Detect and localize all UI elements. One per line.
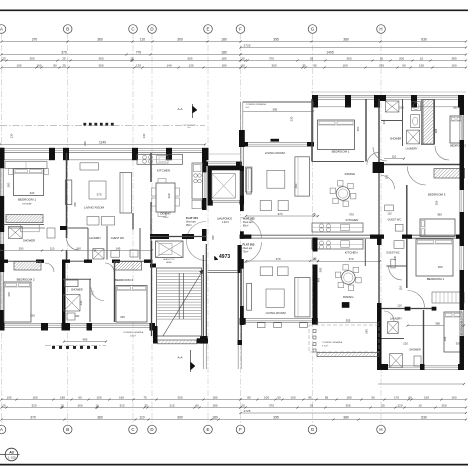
svg-text:A3: A3: [9, 450, 14, 454]
bottom dimension row 1 right: [241, 399, 467, 401]
living flat203 tv: [247, 283, 252, 310]
svg-text:BEDROOM 1: BEDROOM 1: [18, 198, 36, 202]
svg-text:2.92m²: 2.92m²: [222, 221, 229, 224]
svg-text:KITCHEN: KITCHEN: [345, 251, 358, 255]
svg-text:370: 370: [349, 213, 354, 217]
wall y164 right wing: [373, 162, 384, 173]
staircase: [157, 268, 202, 336]
top dimension row 4 right: [241, 67, 467, 69]
right wing top wall inner face: [318, 106, 345, 108]
entry door arc flat203: [241, 242, 262, 263]
wall x379 south part: [377, 237, 382, 245]
roof projection dashed line: [0, 125, 205, 127]
wall living-dining x151: [150, 153, 152, 182]
door arc shower2: [91, 288, 104, 301]
svg-text:100: 100: [96, 395, 101, 399]
veranda west railing: [239, 102, 241, 130]
svg-text:370: 370: [32, 37, 38, 41]
bottom inner dimension right: [378, 383, 464, 385]
svg-text:360: 360: [97, 37, 103, 41]
svg-text:60: 60: [241, 63, 245, 67]
wall x312-317 flat203 kitchen side: [313, 238, 318, 252]
svg-text:370: 370: [269, 403, 274, 407]
living201 big sofa: [120, 173, 132, 214]
dining flat203: [342, 271, 356, 285]
interior dim row left wing: [0, 250, 152, 252]
guest wc 201: [111, 250, 120, 257]
svg-text:135: 135: [136, 63, 141, 67]
veranda-living wall: [242, 142, 248, 147]
grid bubble B bottom: [63, 425, 72, 434]
living flat202 table: [267, 170, 285, 188]
living201 armchairs: [87, 217, 99, 226]
svg-text:B: B: [66, 427, 69, 432]
bedroom1 flat202 bed: [318, 120, 355, 150]
grid lines dashed: [1, 34, 3, 426]
bedroom 2 bed: [4, 282, 31, 322]
veranda planter east of core: [246, 167, 253, 192]
svg-text:380: 380: [343, 415, 349, 419]
wall bed1-shower flat202 x366: [365, 99, 367, 162]
svg-text:COVERED VERANDA: COVERED VERANDA: [322, 341, 343, 344]
bottom dimension 2725: [241, 412, 467, 414]
bedroom1 dresser: [5, 162, 47, 169]
svg-text:345: 345: [443, 336, 447, 341]
svg-text:LIVING ROOM: LIVING ROOM: [84, 205, 105, 209]
svg-text:105: 105: [16, 63, 21, 67]
svg-text:2725: 2725: [244, 409, 251, 413]
svg-text:C: C: [131, 427, 134, 432]
bedroom2 flat203 bed: [444, 312, 462, 352]
svg-text:200: 200: [19, 246, 24, 250]
dim row flat203 living: [246, 260, 318, 262]
svg-text:4973: 4973: [219, 254, 230, 260]
svg-text:3bed apt: 3bed apt: [186, 221, 196, 224]
svg-text:160: 160: [74, 314, 79, 318]
svg-text:230: 230: [379, 63, 384, 67]
svg-text:H: H: [379, 427, 382, 432]
svg-text:370: 370: [30, 415, 36, 419]
svg-text:25: 25: [312, 257, 316, 261]
svg-text:DINING: DINING: [160, 212, 171, 216]
right wing top wall windows: [318, 95, 345, 97]
door arc shower201: [67, 238, 79, 250]
svg-text:B: B: [66, 27, 69, 32]
svg-text:60: 60: [78, 395, 82, 399]
dining flat202: [336, 187, 350, 201]
grid bubble D bottom: [148, 425, 157, 434]
bedroom1 203 wardrobe: [432, 292, 464, 303]
svg-text:630: 630: [421, 37, 427, 41]
svg-text:170: 170: [394, 395, 399, 399]
grid bubble A top: [0, 25, 6, 34]
svg-text:230: 230: [290, 116, 294, 121]
dim 580 flat203: [408, 325, 465, 327]
bottom wall right rooms: [382, 364, 389, 370]
entry walkway west wall: [202, 255, 204, 336]
svg-text:220: 220: [397, 403, 402, 407]
svg-text:KITCHEN: KITCHEN: [346, 218, 359, 222]
svg-text:110: 110: [397, 304, 402, 308]
svg-text:370: 370: [277, 212, 282, 216]
svg-text:375: 375: [96, 193, 101, 197]
svg-text:370: 370: [269, 56, 274, 60]
covered veranda flat203: [309, 325, 379, 352]
dim row flat202 living: [246, 215, 318, 217]
svg-text:395: 395: [273, 415, 279, 419]
laundry flat202: [407, 130, 420, 144]
stair south band: [153, 326, 158, 344]
svg-text:355: 355: [345, 403, 350, 407]
svg-text:10: 10: [420, 56, 424, 60]
veranda hatch strip: [317, 353, 379, 357]
living flat203 table: [266, 289, 284, 307]
grid bubble E bottom: [204, 425, 213, 434]
svg-text:770: 770: [136, 50, 142, 54]
bottom dimension row 2 right: [241, 407, 467, 409]
svg-text:2bed apt: 2bed apt: [243, 247, 253, 250]
kitchen 201 top counter: [137, 154, 183, 164]
svg-text:8m²: 8m²: [246, 106, 250, 109]
grid bubble C bottom: [129, 425, 138, 434]
left wing bottom wall windows: [5, 323, 42, 325]
svg-text:GUEST WC: GUEST WC: [111, 237, 125, 240]
core south wall: [150, 234, 169, 239]
dim row dining203: [318, 260, 380, 262]
svg-text:H: H: [379, 27, 382, 32]
top dimension row 2 right: [241, 54, 467, 56]
grid bubble A bottom: [0, 425, 6, 434]
svg-text:100: 100: [264, 395, 269, 399]
svg-text:E: E: [207, 427, 210, 432]
door arc bed3: [105, 263, 114, 272]
svg-text:580: 580: [435, 321, 440, 325]
svg-text:140: 140: [166, 63, 171, 67]
wall living SE x133: [132, 213, 134, 230]
svg-text:25: 25: [310, 403, 314, 407]
living flat202 sofa: [295, 157, 310, 196]
laundry flat203: [388, 322, 399, 334]
sheet top border: [0, 9, 468, 11]
wardrobe bedroom3: [115, 262, 142, 271]
door arc bed3 202: [407, 167, 426, 186]
door arc guestwc 202: [381, 176, 395, 190]
left wing top wall piers: [0, 148, 5, 160]
living203 south wall: [240, 318, 246, 325]
door arc bed1 203: [408, 291, 425, 308]
grid bubble E top: [204, 25, 213, 34]
svg-text:25: 25: [312, 212, 316, 216]
svg-text:385: 385: [319, 267, 323, 272]
svg-text:355: 355: [346, 318, 351, 322]
svg-text:180: 180: [212, 403, 217, 407]
svg-text:180: 180: [221, 37, 227, 41]
bedroom 1 bed: [14, 169, 44, 196]
dim 355 245: [317, 322, 379, 324]
svg-text:110: 110: [387, 212, 392, 216]
flat201 east wall to core: [202, 150, 207, 172]
svg-text:245: 245: [365, 329, 369, 334]
svg-text:110: 110: [140, 37, 145, 41]
svg-text:300: 300: [177, 395, 182, 399]
svg-text:565: 565: [187, 56, 192, 60]
svg-text:350: 350: [435, 200, 439, 205]
svg-text:100: 100: [290, 395, 295, 399]
svg-text:350: 350: [73, 202, 77, 207]
svg-text:180: 180: [212, 395, 217, 399]
svg-text:LIVING ROOM: LIVING ROOM: [266, 311, 287, 315]
wall shower2 north y279: [63, 278, 91, 280]
veranda dashed projection bottom left: [45, 345, 106, 347]
svg-text:240: 240: [79, 300, 83, 305]
top dimension row 2 left: [2, 54, 241, 56]
svg-text:KITCHEN: KITCHEN: [157, 169, 170, 173]
bedroom 3 bed: [116, 286, 147, 323]
svg-text:180: 180: [346, 395, 351, 399]
svg-text:300: 300: [271, 63, 276, 67]
svg-text:495: 495: [83, 337, 88, 341]
wall x407 flat202 east zone: [406, 185, 408, 237]
wall bed1 south y161.5: [312, 161, 364, 163]
living flat203 armchairs: [260, 267, 273, 276]
title stamp A3 1:100: [0, 454, 20, 456]
svg-text:LAUNDRY: LAUNDRY: [406, 147, 418, 150]
svg-text:490: 490: [294, 183, 298, 188]
svg-text:35: 35: [302, 63, 306, 67]
dining 201 table: [156, 183, 175, 212]
svg-text:160: 160: [32, 395, 37, 399]
svg-text:110: 110: [139, 415, 144, 419]
wall y223 bedroom1 south: [0, 223, 3, 227]
svg-text:130: 130: [10, 133, 14, 138]
svg-text:1140: 1140: [99, 140, 106, 144]
wall y226 living south: [60, 226, 67, 230]
svg-text:360: 360: [98, 56, 103, 60]
wall x151 lower segment: [150, 202, 152, 230]
svg-text:360: 360: [346, 105, 351, 109]
svg-text:160: 160: [451, 395, 456, 399]
svg-text:G: G: [311, 427, 315, 432]
common veranda hatch below stair: [158, 340, 197, 344]
right wing east wall: [460, 95, 465, 115]
svg-text:315: 315: [120, 315, 125, 319]
flat202 covered veranda: [243, 100, 313, 102]
svg-text:BEDROOM 3: BEDROOM 3: [428, 193, 446, 197]
svg-text:380: 380: [451, 56, 456, 60]
svg-text:25: 25: [310, 56, 314, 60]
svg-text:130: 130: [142, 133, 146, 138]
svg-text:25: 25: [241, 403, 245, 407]
svg-text:110: 110: [399, 285, 403, 290]
grid bubble D top: [148, 25, 157, 34]
wall x423 flat203 bed2: [423, 310, 425, 368]
shower2 fixtures: [65, 280, 79, 287]
laundry 201: [93, 249, 104, 259]
closet column flat202: [423, 100, 434, 145]
svg-text:10: 10: [95, 403, 99, 407]
svg-text:ΑΚΑΛΥΠΤΟΣ: ΑΚΑΛΥΠΤΟΣ: [163, 258, 175, 261]
svg-text:75: 75: [143, 395, 147, 399]
left wing west wall: [0, 148, 4, 169]
living201 sofa left: [65, 180, 72, 205]
svg-text:25: 25: [241, 56, 245, 60]
pier dining-living 203: [342, 302, 350, 308]
svg-text:25: 25: [130, 56, 134, 60]
svg-text:135: 135: [188, 63, 193, 67]
svg-text:FLAT 201: FLAT 201: [186, 216, 198, 220]
entry door arcs flat201: [187, 222, 207, 261]
svg-text:ΔΙΑΔΡΟΜΟΣ: ΔΙΑΔΡΟΜΟΣ: [217, 218, 232, 221]
top dimension row 1: [2, 41, 467, 43]
right wing top wall pier H wide: [374, 95, 386, 101]
svg-text:85: 85: [325, 395, 329, 399]
svg-text:F: F: [239, 27, 242, 32]
roofline right wing: [311, 91, 466, 93]
svg-text:BEDROOM 1: BEDROOM 1: [332, 150, 350, 154]
svg-text:380: 380: [343, 37, 349, 41]
shower201 en-suite: [9, 227, 23, 239]
svg-text:3.6m²: 3.6m²: [163, 216, 169, 219]
svg-text:300: 300: [29, 56, 34, 60]
stair hall wall: [150, 264, 156, 268]
shower flat202: [385, 101, 399, 112]
svg-text:8,75m²: 8,75m²: [322, 345, 329, 348]
svg-text:25: 25: [62, 56, 66, 60]
svg-text:25: 25: [62, 63, 66, 67]
svg-text:150: 150: [419, 63, 424, 67]
wall y144 closet south: [421, 143, 435, 145]
svg-text:85: 85: [247, 395, 251, 399]
grid bubble F top: [236, 25, 245, 34]
entry door arc flat202: [241, 218, 262, 239]
svg-text:160: 160: [36, 63, 41, 67]
svg-text:630: 630: [421, 415, 427, 419]
svg-text:50: 50: [277, 395, 281, 399]
door arc guestwc203: [389, 267, 402, 281]
svg-text:95: 95: [313, 63, 317, 67]
svg-text:BEDROOM 2: BEDROOM 2: [17, 278, 35, 282]
shower202 wall y120.5: [381, 120, 402, 122]
guest wc flat203: [364, 239, 366, 266]
svg-text:350: 350: [441, 403, 446, 407]
svg-text:A-A: A-A: [177, 107, 182, 111]
svg-text:LAUNDRY: LAUNDRY: [390, 317, 402, 320]
svg-text:4,95m²: 4,95m²: [130, 335, 137, 338]
walls shower strip verticals: [87, 228, 89, 260]
svg-text:covered veranda: covered veranda: [182, 124, 195, 126]
door arc bed1 202: [367, 152, 379, 164]
right wing west wall piers: [239, 130, 245, 147]
svg-text:A: A: [0, 27, 3, 32]
svg-text:COVERED VERANDA: COVERED VERANDA: [123, 331, 144, 334]
wall bed2-shower2 x62: [62, 262, 66, 323]
wall laundry-closet x421.8: [421, 99, 423, 144]
bottom dimension row 2 left: [2, 407, 241, 409]
wall y338 laundry-shower: [381, 338, 404, 340]
svg-text:80: 80: [53, 63, 57, 67]
svg-text:200: 200: [399, 56, 404, 60]
svg-text:G: G: [311, 27, 315, 32]
svg-text:160: 160: [76, 246, 81, 250]
grid bubble H bottom: [377, 425, 386, 434]
top dimension 2725: [241, 47, 467, 49]
top dimension row 3 left: [2, 60, 241, 62]
top dimension row 4 left: [2, 67, 241, 69]
grid bubble F bottom: [236, 425, 245, 434]
svg-text:380: 380: [453, 106, 458, 110]
svg-text:F: F: [239, 427, 242, 432]
grid bubble H top: [377, 25, 386, 34]
grid bubble G top: [308, 25, 317, 34]
entry walkway east wall: [238, 245, 242, 273]
top dimension row 3 right: [241, 60, 467, 62]
svg-text:en-suite: en-suite: [22, 201, 32, 205]
svg-text:350: 350: [211, 235, 215, 240]
svg-text:350: 350: [356, 126, 360, 131]
svg-text:BEDROOM 1: BEDROOM 1: [427, 277, 445, 281]
wall y308 flat203: [405, 307, 411, 311]
living201 dresser: [80, 163, 99, 170]
elevator shaft walls: [208, 166, 212, 202]
svg-text:SHOWER: SHOWER: [23, 239, 35, 243]
left wing bottom wall piers: [0, 323, 5, 331]
svg-text:60: 60: [402, 63, 406, 67]
svg-text:SHOWER: SHOWER: [71, 288, 83, 292]
svg-text:150: 150: [424, 395, 429, 399]
svg-text:180: 180: [221, 50, 227, 54]
svg-text:300: 300: [177, 37, 183, 41]
svg-text:A-A: A-A: [177, 356, 182, 360]
svg-text:LAUNDRY: LAUNDRY: [89, 237, 101, 240]
bedroom1 flat203 bed: [416, 239, 453, 276]
svg-text:360: 360: [438, 265, 443, 269]
svg-text:215: 215: [169, 403, 174, 407]
svg-text:25: 25: [381, 403, 385, 407]
living203 planters: [257, 323, 265, 328]
svg-text:25: 25: [2, 56, 6, 60]
wall x402.5 flat202: [402, 99, 404, 146]
kitchen 201 tall counter with hob: [192, 163, 202, 199]
svg-text:DINING: DINING: [345, 172, 356, 176]
bedroom2 flat202 bed: [450, 116, 462, 143]
svg-text:320: 320: [30, 191, 35, 195]
svg-text:200: 200: [399, 106, 404, 110]
svg-text:60: 60: [408, 395, 412, 399]
svg-text:3bed apt: 3bed apt: [243, 221, 253, 224]
dimension 1140: [0, 144, 205, 146]
svg-text:60: 60: [195, 403, 199, 407]
svg-text:370: 370: [349, 257, 354, 261]
wall bed3 west x114.5: [114, 262, 116, 322]
svg-text:110: 110: [392, 155, 397, 159]
wall living-bed1 flat202 x312: [311, 99, 313, 162]
svg-text:145: 145: [116, 246, 121, 250]
door arc bedroom2 202: [435, 146, 449, 160]
svg-text:85: 85: [308, 395, 312, 399]
pergola dots: [83, 123, 86, 126]
svg-text:395: 395: [273, 37, 279, 41]
svg-text:E: E: [207, 27, 210, 32]
svg-text:70m²: 70m²: [243, 251, 249, 254]
svg-text:D: D: [150, 27, 153, 32]
svg-text:BEDROOM 3: BEDROOM 3: [115, 278, 133, 282]
svg-text:10: 10: [60, 403, 64, 407]
door arc shower202: [373, 147, 387, 161]
svg-text:25: 25: [144, 403, 148, 407]
core north wall: [203, 162, 208, 167]
svg-text:GUEST WC: GUEST WC: [386, 252, 400, 255]
svg-text:DINING: DINING: [343, 295, 354, 299]
